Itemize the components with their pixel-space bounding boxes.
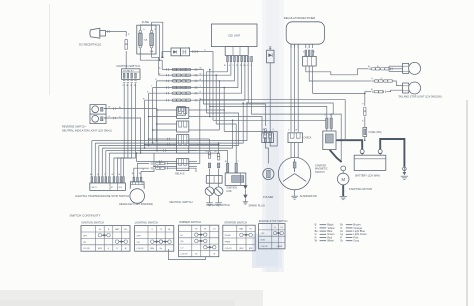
connector above fuse [364, 107, 366, 111]
reverse / neutral indicator lights [90, 105, 106, 124]
wire: right ground drop [403, 167, 405, 172]
svg-text:ENGINE STOP SWITCH: ENGINE STOP SWITCH [259, 219, 288, 223]
svg-text:W: W [295, 130, 297, 132]
svg-text:STARTER SWITCH: STARTER SWITCH [224, 221, 247, 225]
svg-text:SWITCH CONTINUITY: SWITCH CONTINUITY [70, 214, 101, 218]
neutral switch [205, 187, 214, 196]
wire: pulser connections [265, 143, 268, 164]
battery terminals [360, 149, 364, 153]
svg-text:Bl/Br: Bl/Br [150, 248, 154, 250]
DC receptacle [90, 28, 100, 38]
reg/rect connector block [303, 56, 317, 66]
bullet pairs above pulser [264, 129, 266, 132]
wire: fuse15A vertical [364, 93, 366, 105]
svg-text:M: M [341, 177, 345, 182]
svg-text:Bu: Bu [200, 68, 202, 70]
svg-text:TAIL AND STOP LIGHT (12V 5W/21: TAIL AND STOP LIGHT (12V 5W/21W) [398, 96, 442, 99]
wires: regulator drops [290, 44, 292, 132]
svg-text:Bu: Bu [195, 254, 197, 256]
spark plug [243, 185, 247, 189]
diode D1 [267, 50, 274, 63]
wires: relay plug left side [157, 109, 177, 111]
svg-text:SPARK PLUG: SPARK PLUG [249, 203, 265, 207]
svg-text:NEUTRAL SWITCH: NEUTRAL SWITCH [170, 200, 193, 204]
wire: diode D1 drop to P5 plug pin [269, 63, 271, 131]
wire: DC receptacle to ignition switch [106, 32, 126, 37]
svg-text:Bu: Bu [263, 129, 265, 131]
svg-text:PUSH: PUSH [225, 235, 231, 237]
wire: diode assembly left stub [162, 51, 171, 53]
wires: headlight connector rows out [167, 100, 200, 164]
svg-text:W: W [213, 254, 215, 256]
wire: tail row B [361, 80, 371, 82]
thick battery cables [336, 140, 362, 149]
bullet connector rows [166, 68, 168, 70]
wires: center horizontals [203, 104, 265, 126]
svg-text:COLOR: COLOR [137, 248, 144, 250]
svg-text:CDI UNIT: CDI UNIT [228, 33, 240, 37]
wires: check connector to alternator leads [290, 143, 292, 158]
svg-text:LO: LO [213, 229, 216, 231]
svg-text:W: W [200, 73, 202, 75]
wires: alternator ground [294, 190, 296, 196]
CDI unit U1 [211, 24, 257, 47]
svg-text:White: White [327, 239, 334, 243]
relay plug connectors [177, 121, 189, 132]
svg-text:COLOR: COLOR [225, 248, 232, 250]
wire: run y106 to starter switch pin [210, 106, 327, 117]
battery [354, 155, 386, 170]
svg-text:FUSE: FUSE [142, 20, 149, 24]
svg-text:Gray: Gray [353, 239, 359, 243]
svg-text:RELAYS: RELAYS [175, 172, 185, 175]
tail light connector rows [371, 68, 375, 70]
junction dots [159, 59, 161, 61]
connector ticks on lamp leads [113, 107, 115, 109]
svg-text:Bl/W: Bl/W [240, 248, 244, 250]
svg-text:REVERSE SWITCH: REVERSE SWITCH [62, 125, 85, 129]
right ground [403, 167, 407, 171]
svg-text:IGNITION SWITCH: IGNITION SWITCH [81, 221, 104, 225]
headlight [130, 189, 145, 204]
svg-text:LIGHTING STARTER ENGINE STOP S: LIGHTING STARTER ENGINE STOP SWITCH [75, 194, 129, 198]
svg-text:FUSE (15A): FUSE (15A) [369, 131, 382, 134]
plug connector below rows [177, 107, 185, 116]
reverse switch [214, 187, 223, 196]
ignition coil [225, 173, 246, 185]
alternator [278, 157, 310, 189]
svg-text:Bu: Bu [90, 174, 92, 176]
svg-text:COIL: COIL [226, 190, 232, 193]
svg-text:Bu: Bu [160, 248, 162, 250]
svg-text:DC RECEPTACLE: DC RECEPTACLE [79, 43, 102, 47]
headlight connector rows [156, 162, 160, 164]
svg-text:G Bl/W: G Bl/W [277, 246, 283, 248]
svg-text:Bu: Bu [243, 65, 245, 67]
grounds under neutral/reverse [206, 202, 213, 204]
svg-text:IGNITION SWITCH: IGNITION SWITCH [117, 64, 140, 68]
svg-text:W: W [313, 52, 315, 54]
wire: cdi p7 run to starter switch pin [248, 103, 333, 118]
diode assembly [171, 48, 180, 56]
svg-text:BATTERY (12V 8AH): BATTERY (12V 8AH) [355, 174, 380, 178]
svg-text:IG E BAT HO: IG E BAT HO [123, 69, 134, 72]
starting motor [341, 166, 346, 171]
wire: tail row C [365, 91, 371, 93]
svg-text:W: W [159, 73, 161, 75]
svg-text:DIMMER SWITCH: DIMMER SWITCH [179, 220, 201, 224]
svg-text:LSW TL: LSW TL [91, 187, 97, 189]
tail and stop light bulb 2 [409, 82, 421, 94]
2-pin plug connector P5 [262, 133, 274, 143]
check connector [288, 133, 302, 143]
svg-text:Bu: Bu [132, 173, 134, 175]
svg-text:HEADLIGHT (12V 30W/30W): HEADLIGHT (12V 30W/30W) [119, 202, 153, 206]
wires: harness bundle to handlebar switch [91, 141, 93, 177]
CDI connector block [225, 47, 248, 56]
wires: indicator lamp leads [104, 109, 157, 151]
svg-text:W: W [240, 65, 242, 67]
svg-text:CHECK: CHECK [303, 137, 312, 139]
starter magnetic switch [323, 131, 336, 150]
svg-text:Gr: Gr [340, 239, 343, 243]
svg-text:HO: HO [124, 229, 127, 231]
wires: relay plug right side [189, 138, 197, 140]
svg-text:W: W [112, 174, 114, 176]
svg-text:COLOR: COLOR [181, 254, 188, 256]
svg-text:NEUTRAL INDICATOR LIGHT (12V 3: NEUTRAL INDICATOR LIGHT (12V 3W×2) [62, 129, 112, 133]
svg-text:Bl/W: Bl/W [98, 248, 102, 250]
wires: neutral reverse switch grounds [209, 196, 211, 203]
wires: connector rows horizontal runs [162, 70, 203, 105]
pulser [263, 168, 274, 179]
wires: tail light feeds from regulator connector [306, 66, 358, 75]
svg-text:W: W [134, 85, 136, 87]
wires: neutral / reverse switch risers [209, 139, 211, 150]
svg-text:Bu: Bu [159, 68, 161, 70]
bullet pairs above neutral/reverse [208, 151, 210, 154]
svg-text:REGULATOR/RECTIFIER: REGULATOR/RECTIFIER [284, 16, 315, 20]
wire: fuse bottom exits to connector rows 1-2 [140, 48, 162, 70]
fuse 15A [363, 127, 367, 136]
wire: tail row A [357, 68, 368, 70]
wire: diode assembly output down long vertical v4 [190, 52, 213, 121]
wires: ignition switch verticals down to handlebar switch [114, 83, 124, 176]
svg-text:ST: ST [111, 187, 113, 189]
wire under lighting table [168, 249, 205, 260]
svg-text:LIGHTING SWITCH: LIGHTING SWITCH [135, 221, 158, 225]
svg-text:STARTING MOTOR: STARTING MOTOR [349, 187, 372, 191]
tail and stop light bulb 1 [409, 62, 421, 74]
svg-text:LO: LO [181, 247, 184, 249]
svg-text:FREE: FREE [225, 241, 231, 243]
connector block above neutral/reverse switches [206, 176, 222, 184]
svg-text:(N): (N) [181, 241, 184, 243]
wires: CDI pin drops [207, 62, 228, 113]
wires: center verticals branching off rows [209, 70, 211, 117]
svg-text:Br: Br [119, 107, 121, 109]
wire: headlight hi beam long run y99.7 [200, 100, 345, 141]
fuse box [137, 25, 156, 54]
svg-text:SWITCH: SWITCH [315, 171, 325, 174]
svg-text:RUN: RUN [261, 240, 266, 242]
svg-text:Lg: Lg [206, 151, 208, 153]
svg-text:W: W [139, 173, 141, 175]
wires: headlight risers [134, 168, 149, 177]
bullet pairs on relay left wires [167, 138, 169, 140]
svg-text:REVERSE SWITCH: REVERSE SWITCH [207, 203, 230, 207]
connector pair CP1 [125, 39, 128, 44]
svg-text:PULSER: PULSER [263, 195, 274, 199]
svg-text:ALTERNATOR: ALTERNATOR [300, 194, 317, 198]
wire: fuse top jumpers to feed verticals [140, 25, 159, 60]
handlebar switch connector (lighting/starter/engine stop) [90, 183, 126, 190]
svg-text:COLOR: COLOR [83, 248, 90, 250]
svg-text:COLOR: COLOR [261, 246, 268, 248]
wires: starter magnetic switch pin stubs [326, 129, 328, 131]
